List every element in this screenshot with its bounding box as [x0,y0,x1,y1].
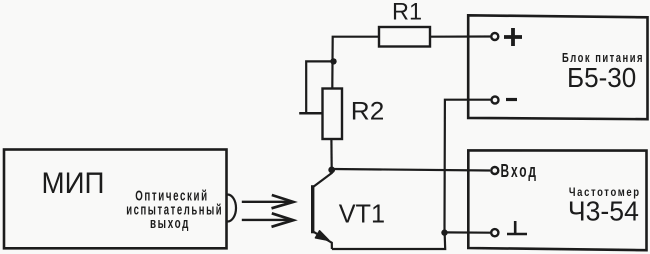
plus symbol [504,28,522,46]
svg-text:Б5-30: Б5-30 [567,62,636,93]
svg-text:МИП: МИП [42,167,105,200]
device box МИП [4,150,227,249]
wire minus terminal down to ground node [445,100,492,232]
wire R1 right to plus terminal [430,35,491,37]
svg-text:R2: R2 [351,97,385,125]
wire emitter to ground node [332,232,445,249]
Вход terminal circle [491,167,498,174]
svg-text:R1: R1 [392,0,422,26]
svg-text:Ч3-54: Ч3-54 [568,195,639,226]
svg-text:Вход: Вход [501,161,539,181]
junction dot at ground node [441,229,447,235]
transistor VT1 base bar [311,185,314,233]
optical output lens arc [228,195,237,222]
power supply box Б5-30 [468,15,647,119]
wire R1 left and down to R2 top [332,37,379,89]
junction dot at collector node [328,167,335,174]
⊥ terminal circle [491,229,498,236]
minus terminal circle [492,97,499,104]
light arrow lower shaft [242,219,291,221]
minus symbol [506,98,517,101]
wire ground node to ⊥ terminal [445,231,491,234]
emitter arrowhead [316,231,329,240]
wire collector node to Вход terminal [332,169,491,171]
plus terminal circle [491,33,498,40]
light arrow upper shaft [242,201,291,203]
resistor R1 [379,27,430,47]
transistor VT1 collector lead [313,170,332,187]
junction dot at R2 tap [330,58,336,64]
wire R2 bottom to collector node [330,139,333,170]
resistor R2 [323,89,343,140]
svg-text:выход: выход [150,215,190,232]
light arrow upper head [272,195,294,208]
light arrow lower head [272,213,294,227]
ground ⊥ symbol [507,221,527,234]
frequency meter box Ч3-54 [468,150,646,250]
wire R2 tap branch [306,61,333,113]
svg-text:VT1: VT1 [339,199,385,229]
transistor VT1 emitter lead [313,231,332,249]
R2 tap bar [299,112,322,115]
